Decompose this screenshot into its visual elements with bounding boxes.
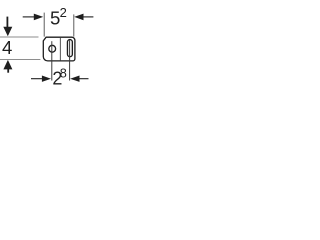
top dim: left extension line bbox=[43, 13, 45, 37]
left dim stem bottom bbox=[7, 69, 9, 73]
svg-text:8: 8 bbox=[60, 67, 67, 81]
slot centerline / bottom-dim right extension line bbox=[69, 40, 71, 80]
top dim right arrow bbox=[74, 14, 83, 21]
slot bbox=[67, 40, 72, 57]
bottom dim line right tail bbox=[79, 78, 88, 80]
svg-text:4: 4 bbox=[2, 37, 12, 58]
circle centerline / bottom-dim left extension line bbox=[51, 41, 53, 80]
divider line bbox=[59, 38, 61, 61]
bottom dim right arrow bbox=[70, 76, 79, 82]
left dim: lower gray extension line bbox=[0, 59, 40, 61]
bracket outline bbox=[43, 37, 75, 61]
top dim line left tail bbox=[23, 16, 35, 18]
bottom dim line left tail bbox=[31, 78, 42, 80]
hole circle bbox=[49, 45, 56, 52]
left dim down arrow bbox=[3, 27, 12, 37]
top dim left arrow bbox=[34, 14, 43, 21]
top dim: right extension line bbox=[73, 14, 75, 36]
left dim: upper gray extension line bbox=[0, 36, 39, 38]
left dim stem top bbox=[6, 17, 8, 28]
top dim line right tail bbox=[83, 16, 93, 18]
left dim up arrow bbox=[3, 60, 12, 70]
bottom dim left arrow bbox=[42, 76, 51, 82]
svg-text:2: 2 bbox=[60, 5, 67, 20]
